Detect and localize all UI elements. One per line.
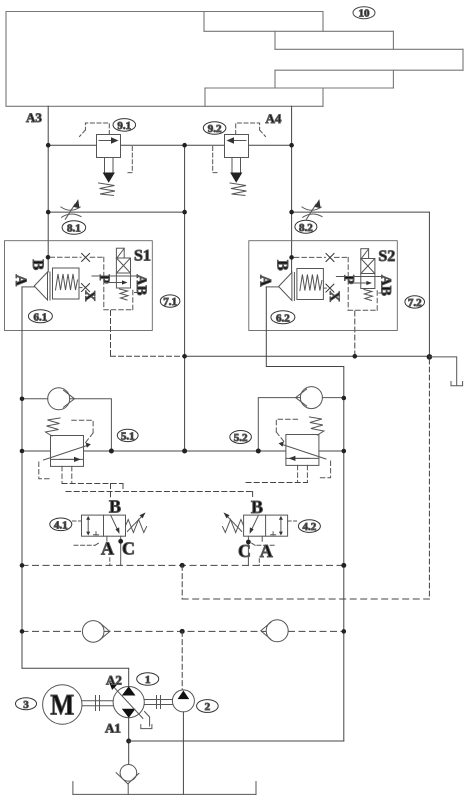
wire 6.2 A-line routing [266, 287, 344, 398]
node tank/S2 drain [353, 354, 358, 359]
node left/451 [20, 449, 25, 454]
node mid/565 [180, 563, 185, 568]
label 8.1 [62, 221, 86, 235]
svg-text:A4: A4 [266, 111, 282, 126]
wire tank header y=356 [185, 355, 430, 357]
label 10 [353, 7, 375, 20]
node tank/mid [182, 354, 187, 359]
X plug symbol upper 6.2 [326, 254, 334, 262]
label 1 [137, 673, 159, 686]
AB stub S2 [379, 292, 384, 294]
dashed drain under 4.2 [250, 542, 275, 545]
wire relief cross line y=451 [22, 450, 344, 452]
enclosure box 7.2 [249, 241, 397, 331]
label 7.2 [405, 296, 425, 309]
svg-text:A3: A3 [26, 110, 42, 125]
svg-text:4.1: 4.1 [54, 519, 68, 531]
wire check left [22, 398, 48, 400]
dashed lead right 4.2 [288, 520, 297, 522]
node C 4.1 [118, 539, 123, 544]
dashed rail y=599 [182, 598, 429, 600]
svg-text:A: A [12, 275, 29, 287]
node left/check 5.1 [20, 397, 25, 402]
node mid/451 [182, 449, 187, 454]
pilot dashed 5.1 [39, 420, 93, 483]
shaft M-pump1 [82, 696, 113, 711]
valve 9.2 [213, 123, 266, 196]
dashed rail y=483.5 left [62, 483, 123, 485]
tank symbol right [429, 357, 462, 386]
svg-text:1: 1 [145, 674, 151, 686]
svg-text:B: B [109, 497, 121, 517]
spring box 6.1 [53, 268, 80, 299]
dashed A lead down [109, 558, 111, 566]
dashed lead left 4.1 [73, 520, 82, 522]
check valve 5.1a [22, 388, 111, 451]
spring 6.2 [300, 275, 322, 291]
pilot dashed 5.2 [276, 419, 330, 482]
A stub 4.1 [106, 536, 108, 541]
label 6.1 [28, 310, 52, 324]
dashed rail y=565 [22, 564, 344, 566]
spring 5.2 [309, 417, 324, 435]
spring 6.1 [56, 274, 78, 290]
svg-text:4.2: 4.2 [303, 521, 317, 533]
svg-text:X: X [82, 291, 98, 302]
relief valve 5.2 [276, 417, 330, 483]
pilot dashed 6.1 [50, 257, 133, 310]
wire check right [322, 397, 343, 399]
dashed drop mid 565-599 [181, 565, 183, 599]
X plug symbol lower 6.1 [82, 284, 90, 292]
cylinder 10 (telescopic cylinder) [6, 12, 463, 107]
wire top cross line y=145 [48, 144, 291, 146]
svg-text:6.2: 6.2 [276, 312, 290, 324]
node at mid/9.1 [182, 143, 187, 148]
suction filter check [116, 765, 139, 795]
shaft pump1-pump2 [144, 696, 172, 709]
dashed rail y=483.5 right [246, 482, 307, 484]
node A1/741 [126, 739, 131, 744]
node A4/8.2 [289, 210, 294, 215]
X port wire 6.1 [79, 287, 82, 289]
wire dashed drain down right [428, 359, 430, 597]
svg-text:C: C [122, 539, 135, 559]
svg-text:S2: S2 [378, 248, 395, 265]
node mid/8.1 [182, 210, 187, 215]
node tank/8.2 [427, 354, 433, 360]
svg-text:8.1: 8.1 [67, 223, 81, 235]
S1 spring [120, 289, 129, 300]
dashed charge rail y=632 [22, 630, 344, 632]
svg-text:A: A [260, 541, 273, 561]
label 9.1 [113, 119, 136, 132]
label 4.1 [50, 518, 72, 531]
svg-text:C: C [238, 541, 251, 561]
X port wire 6.2 [323, 287, 326, 289]
directional valve 4.2 [223, 497, 297, 565]
dashed corner to 491 [122, 484, 124, 492]
dashed B lead 4.1 [110, 484, 112, 500]
poppet cone 6.2 [279, 273, 292, 301]
motor M [43, 685, 82, 724]
directional valve 4.1 [73, 497, 147, 566]
dashed drain under 4.1 [74, 542, 101, 545]
wire A4 vertical [291, 106, 293, 272]
svg-text:B: B [273, 260, 290, 271]
solenoid valve S2 [336, 248, 395, 301]
label 7.1 [160, 295, 180, 308]
counterbalance cartridge 6.1 [12, 253, 133, 309]
label 9.2 [203, 122, 226, 135]
P line S2 [336, 276, 381, 278]
svg-text:A2: A2 [106, 673, 122, 688]
right position diagonal arrow [111, 516, 118, 531]
node C 4.2 [246, 540, 251, 545]
throttle 8.1 [61, 199, 81, 219]
svg-text:7.2: 7.2 [408, 297, 422, 309]
wire throttle line right y=212 [292, 211, 430, 213]
wire dashed drain from S1 [110, 311, 112, 357]
node B-branch/451 [109, 449, 114, 454]
wire right trunk vertical [343, 398, 345, 741]
left position arrows [87, 519, 89, 534]
case drain pump1 [145, 712, 150, 727]
svg-text:S1: S1 [134, 248, 151, 265]
solenoid valve S1 [92, 248, 151, 301]
node right/451 [342, 449, 347, 454]
charge pump 2 [172, 690, 194, 712]
throttle 8.2 [302, 199, 322, 219]
node B port 6.2 [289, 255, 294, 260]
spring box 6.2 [297, 269, 324, 300]
dashed B lead 4.2 [252, 492, 254, 500]
svg-text:M: M [50, 689, 74, 722]
svg-text:A1: A1 [105, 721, 121, 736]
left position diagonal arrow [251, 516, 258, 531]
label 5.1 [117, 429, 138, 442]
label 6.2 [271, 311, 295, 325]
wire dashed drain from S2 [354, 311, 356, 356]
check valve 5.2a [258, 387, 344, 452]
dashed A lead down [258, 559, 260, 566]
dashed rail y=491.5 [66, 491, 253, 493]
counterbalance cartridge 6.2 [256, 254, 377, 311]
poppet cone 6.1 [34, 272, 47, 300]
svg-text:5.2: 5.2 [234, 432, 248, 444]
wire center vertical [184, 145, 186, 451]
svg-text:10: 10 [359, 8, 371, 20]
svg-text:3: 3 [23, 699, 29, 711]
wire left A-line vertical [21, 287, 23, 668]
svg-text:9.2: 9.2 [208, 123, 222, 135]
S2 spring [364, 290, 373, 301]
label 3 [16, 698, 37, 711]
spring+solenoid 4.2 [223, 520, 244, 533]
wire pump2 suction [182, 712, 184, 795]
port A wire 6.1 [22, 286, 34, 288]
charge check valve right [261, 620, 288, 642]
svg-text:2: 2 [205, 701, 211, 713]
label 4.2 [298, 520, 320, 533]
wire 8.2 down line [428, 212, 430, 357]
label 8.2 [295, 220, 317, 234]
node mid/632 [180, 629, 185, 634]
label 5.2 [230, 431, 252, 445]
svg-text:A: A [101, 539, 114, 559]
relief valve 5.1 [39, 418, 93, 484]
node A3/8.1 [46, 210, 51, 215]
node right/565 [341, 563, 346, 568]
wire throttle line left y=212 [48, 211, 184, 213]
C line 4.1 [120, 536, 122, 565]
spring+solenoid 4.1 [126, 520, 147, 533]
wire check right to corner [70, 399, 112, 451]
node left/565 [20, 563, 25, 568]
svg-text:9.1: 9.1 [117, 120, 131, 132]
tank bottom [73, 782, 256, 795]
spring 5.1 [46, 418, 61, 436]
svg-text:AB: AB [377, 275, 393, 296]
wire dashed drain to header [111, 355, 185, 357]
node right/check 5.2 [342, 396, 347, 401]
charge check valve left [82, 621, 109, 643]
node 5.2-branch/451 [256, 449, 261, 454]
dashed drain rails around 4.x [62, 483, 307, 500]
wire A3 vertical [47, 106, 49, 272]
node right/632 [342, 629, 347, 634]
valve 9.1 [80, 123, 133, 196]
wire A1 down [128, 718, 130, 765]
node left/632 [20, 629, 25, 634]
node at A4/9.2 [289, 143, 294, 148]
X plug symbol lower 6.2 [326, 284, 334, 292]
label 2 [197, 700, 219, 714]
main pump 1 [110, 683, 152, 729]
pilot dashed 6.2 [294, 257, 377, 310]
svg-text:X: X [326, 291, 342, 302]
svg-text:AB: AB [133, 275, 149, 296]
svg-text:8.2: 8.2 [299, 222, 313, 234]
wire A2 header [22, 668, 129, 686]
svg-text:6.1: 6.1 [34, 311, 48, 323]
wire check left to corner [258, 398, 300, 452]
svg-text:B: B [29, 260, 46, 271]
svg-text:5.1: 5.1 [121, 431, 135, 443]
P line S1 [92, 275, 137, 277]
svg-text:A: A [256, 275, 273, 287]
dashed charge feed down [181, 631, 183, 689]
node at A3/9.1 [46, 143, 51, 148]
right position arrows [280, 519, 282, 534]
enclosure box 7.1 [5, 241, 153, 331]
C line 4.2 [247, 536, 249, 565]
AB stub S1 [135, 292, 140, 294]
wire bottom header y=741 [129, 740, 344, 742]
port A wire 6.2 [266, 286, 278, 288]
A stub 4.2 [261, 536, 263, 541]
svg-text:B: B [251, 497, 263, 517]
node B port 6.1 [46, 255, 51, 260]
X plug symbol upper 6.1 [82, 253, 90, 261]
svg-text:7.1: 7.1 [163, 296, 177, 308]
